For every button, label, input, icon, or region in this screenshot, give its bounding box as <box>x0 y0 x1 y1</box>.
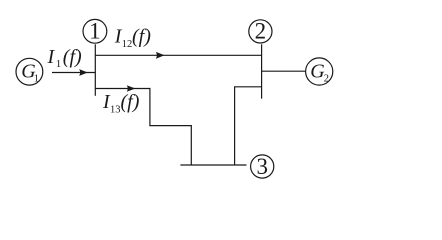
svg-text:1: 1 <box>89 19 101 44</box>
bus 3 (horizontal busbar) <box>180 164 246 166</box>
svg-text:13: 13 <box>110 104 121 115</box>
wire bus 2 to G2 <box>262 70 305 72</box>
node 3 (bus 3 circle) <box>251 155 274 178</box>
svg-text:I: I <box>47 46 56 68</box>
node 1 (bus 1 circle) <box>83 19 107 43</box>
svg-text:(f): (f) <box>63 46 82 68</box>
svg-text:(f): (f) <box>132 26 151 48</box>
svg-text:3: 3 <box>256 154 268 179</box>
svg-text:2: 2 <box>324 74 329 85</box>
wire G1 to bus 1 <box>52 72 95 74</box>
generator G1 circle <box>16 58 43 85</box>
bus 1 (vertical busbar) <box>94 44 96 96</box>
svg-text:1: 1 <box>56 58 62 70</box>
wire bus 1 to bus 2 (line 1-2) <box>95 54 261 56</box>
svg-text:(f): (f) <box>121 91 140 113</box>
generator G2 circle <box>306 58 333 85</box>
svg-text:12: 12 <box>122 39 133 50</box>
bus 2 (vertical busbar) <box>261 44 263 98</box>
wire bus 2 to bus 3 (line 2-3) <box>235 87 262 165</box>
arrowhead I12 <box>156 52 165 59</box>
svg-text:1: 1 <box>34 74 39 85</box>
wire bus 1 to bus 3 (line 1-3) <box>95 89 191 166</box>
arrowhead I1 <box>79 69 88 76</box>
svg-text:2: 2 <box>255 19 267 44</box>
node 2 (bus 2 circle) <box>249 20 272 43</box>
arrowhead I13 <box>127 85 136 91</box>
